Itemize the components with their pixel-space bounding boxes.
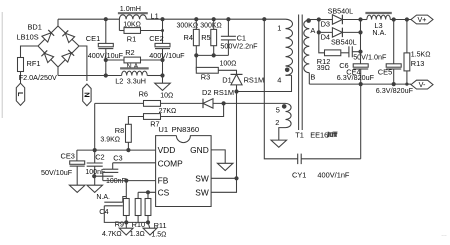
svg-text:VDD: VDD (158, 145, 176, 155)
svg-text:N.A.: N.A. (96, 194, 110, 201)
resistor R8 (100, 124, 131, 150)
capacitor CE4 (337, 64, 375, 84)
svg-text:LB10S: LB10S (17, 33, 39, 42)
resistor R2 (106, 48, 163, 70)
junction CE1 top (104, 17, 108, 21)
junction CE1 bottom (104, 73, 108, 77)
svg-text:PN8360: PN8360 (172, 125, 199, 134)
corner artifact (441, 232, 447, 238)
svg-text:50V/1.0nF: 50V/1.0nF (353, 53, 387, 62)
junction C1 top (226, 17, 230, 21)
capacitor CY1 (292, 154, 361, 180)
ground IC (217, 163, 233, 170)
svg-text:SB540L: SB540L (328, 7, 354, 16)
svg-text:D4: D4 (321, 32, 330, 41)
label T1 (295, 130, 304, 139)
svg-text:L: L (16, 92, 25, 97)
wire Y-cap right leg (360, 84, 362, 159)
svg-text:CE2: CE2 (149, 34, 163, 43)
resistor R5 (201, 19, 216, 55)
wire CS line (138, 191, 156, 193)
junction SW bus (234, 176, 238, 180)
svg-text:39Ω: 39Ω (317, 65, 330, 72)
capacitor C4 (96, 194, 126, 222)
ground aux winding (271, 140, 287, 147)
wire bottom rail (58, 75, 163, 77)
ground C2 (87, 185, 103, 192)
junction R5 top (212, 17, 216, 21)
inductor L1 (118, 4, 159, 21)
pin COMP (158, 158, 184, 168)
label 300K second (200, 23, 222, 30)
svg-text:COMP: COMP (158, 158, 184, 168)
transformer T1 secondary (304, 20, 316, 85)
svg-text:SW: SW (195, 173, 209, 183)
svg-text:C2: C2 (95, 152, 104, 161)
junction D3 out (358, 17, 362, 21)
resistor R3 (196, 55, 236, 81)
resistor R9 (115, 181, 130, 229)
svg-text:L1: L1 (151, 11, 159, 20)
wire Y-cap left leg (264, 19, 297, 159)
svg-text:N.A.: N.A. (372, 28, 386, 37)
wire R3 to D1 (218, 70, 236, 74)
svg-text:10KΩ: 10KΩ (123, 22, 141, 29)
svg-text:4: 4 (277, 76, 281, 85)
bridge diode top-right (62, 30, 74, 42)
svg-text:A: A (310, 26, 315, 35)
svg-text:SB540L: SB540L (331, 38, 357, 47)
svg-text:100Ω: 100Ω (220, 60, 237, 67)
svg-text:1.5Ω: 1.5Ω (151, 231, 166, 238)
svg-text:GND: GND (190, 145, 209, 155)
svg-text:CE1: CE1 (86, 34, 100, 43)
svg-text:5: 5 (276, 106, 280, 115)
node V- terminal (411, 80, 433, 89)
junction CE5 bottom (392, 82, 396, 86)
svg-text:BD1: BD1 (28, 23, 42, 32)
ground sense right (143, 222, 157, 235)
junction CE2-R2 (160, 58, 164, 62)
wire snubber bottom (196, 54, 228, 56)
label 1.3 (130, 231, 145, 238)
diode D4 (319, 20, 361, 47)
junction C2 tap (92, 174, 96, 178)
transformer core (299, 15, 303, 131)
fuse/thermistor RF1 (18, 58, 41, 72)
junction R9 gnd (124, 220, 128, 224)
junction drain node (234, 89, 238, 93)
svg-text:6.3V/820uF: 6.3V/820uF (337, 73, 375, 82)
svg-text:500V/2.2nF: 500V/2.2nF (220, 42, 258, 51)
svg-text:300KΩ: 300KΩ (200, 23, 222, 30)
svg-text:400V/1nF: 400V/1nF (317, 171, 350, 180)
wire top rail to T1 pin1 (264, 18, 285, 20)
svg-text:R3: R3 (201, 73, 210, 82)
svg-text:B: B (310, 72, 315, 81)
ground CE3 (69, 185, 85, 192)
svg-text:300KΩ: 300KΩ (177, 23, 199, 30)
junction R4 top (194, 17, 198, 21)
wire drain to T1 pin4 (237, 75, 292, 91)
wire RF1 to bridge AC1 (21, 46, 39, 58)
resistor R4 (184, 19, 200, 55)
junction Y-cap branch (262, 17, 266, 21)
svg-text:L2: L2 (115, 77, 123, 86)
label EE16 (310, 130, 337, 139)
pin GND (190, 145, 209, 155)
label BD1 (28, 23, 42, 32)
diode D1 (222, 74, 264, 85)
svg-text:D2 RS1M: D2 RS1M (202, 88, 234, 97)
label 300K first (177, 23, 199, 30)
ground primary bottom (155, 83, 174, 99)
junction C6 out (358, 50, 362, 54)
inductor L2 (115, 68, 149, 85)
node N input terminal (83, 84, 92, 106)
svg-text:RF1: RF1 (27, 59, 41, 68)
svg-text:CE5: CE5 (378, 68, 392, 77)
junction R6 riser bottom (93, 148, 97, 152)
svg-text:CE3: CE3 (61, 151, 75, 160)
wire VDD line (77, 150, 156, 161)
junction R13 top (405, 17, 409, 21)
junction CE5 top (392, 17, 396, 21)
bridge diode bottom-left (41, 50, 53, 62)
svg-text:F2.0A/250V: F2.0A/250V (19, 73, 57, 82)
pin VDD (158, 145, 176, 155)
capacitor CE1 (86, 19, 124, 75)
junction CE4 bottom (359, 82, 363, 86)
svg-text:R8: R8 (115, 126, 124, 135)
junction R8 bottom (126, 148, 130, 152)
svg-text:T1: T1 (295, 130, 304, 139)
capacitor C6 (339, 46, 387, 70)
junction D4 out (358, 30, 362, 34)
junction FB-R9 (124, 179, 128, 183)
svg-text:R1: R1 (127, 34, 136, 43)
resistor R6 (95, 90, 203, 107)
node V+ terminal (411, 15, 433, 24)
svg-text:CS: CS (158, 187, 170, 197)
junction CE1-R2 (104, 58, 108, 62)
svg-text:R9: R9 (115, 220, 124, 229)
svg-text:V-: V- (419, 80, 426, 89)
capacitor C1 (220, 19, 258, 55)
capacitor CE5 (376, 20, 414, 96)
junction R4 bottom (194, 53, 198, 57)
label 4.7K (102, 231, 122, 238)
svg-text:4.7KΩ: 4.7KΩ (102, 231, 122, 238)
svg-text:N: N (83, 92, 92, 97)
transformer T1 primary (277, 19, 292, 84)
phase dot secondary (306, 18, 311, 23)
svg-text:27KΩ: 27KΩ (159, 108, 177, 115)
wire N to bridge AC2 (79, 46, 87, 81)
wire bridge+ to top rail (57, 19, 59, 26)
wire VDD feed riser (94, 103, 96, 150)
label LB10S (17, 33, 39, 42)
svg-text:C4: C4 (99, 207, 108, 216)
pin CS (158, 187, 170, 197)
svg-text:2: 2 (275, 118, 279, 127)
pin FB (158, 176, 169, 186)
wire D2 to aux pin5 (213, 102, 286, 104)
left edge artifact (1, 12, 3, 118)
junction R13 bottom (405, 83, 408, 86)
junction CE2-rail (160, 73, 164, 77)
wire C2 tap stub (94, 175, 113, 177)
node L input terminal (16, 83, 25, 105)
wire A node (309, 19, 319, 21)
svg-text:400V/10uF: 400V/10uF (149, 51, 185, 60)
transformer T1 aux winding (275, 103, 291, 140)
wire bridge- to bottom rail (57, 67, 59, 76)
diode D3 (319, 7, 361, 29)
junction CE2 top (160, 17, 164, 21)
wire top rail left (58, 18, 119, 20)
svg-text:R6: R6 (139, 90, 148, 99)
junction R5 bottom (212, 53, 216, 57)
svg-text:SW: SW (195, 187, 209, 197)
svg-text:R2: R2 (125, 48, 134, 57)
junction A node (317, 17, 321, 21)
resistor R1 (119, 19, 164, 43)
junction R7 tap (222, 101, 226, 105)
ground sense left (119, 222, 133, 235)
wire D1 to drain (236, 85, 238, 92)
svg-text:6.3V/820uF: 6.3V/820uF (376, 86, 414, 95)
svg-text:EE16: EE16 (310, 130, 328, 139)
wire FB line (103, 180, 156, 182)
wire SW lower pin (211, 92, 236, 193)
resistor R7 (128, 103, 223, 128)
op-amp U1 PN8360 body (156, 125, 212, 206)
pin SW upper (195, 173, 209, 183)
svg-text:1.5KΩ: 1.5KΩ (411, 51, 431, 58)
svg-text:…: … (441, 232, 447, 238)
svg-text:D3: D3 (321, 19, 330, 28)
wire L to RF1 (20, 72, 22, 84)
label F2.0A/250V (19, 73, 57, 82)
svg-text:1.3Ω: 1.3Ω (130, 231, 145, 238)
capacitor C3 (103, 153, 126, 185)
resistor R10 (132, 192, 146, 229)
svg-text:V+: V+ (418, 15, 427, 24)
svg-text:3.3uH: 3.3uH (127, 77, 146, 86)
resistor R11 (145, 192, 167, 230)
svg-text:R5: R5 (201, 33, 210, 42)
svg-text:100nF: 100nF (106, 178, 126, 185)
wire SW upper pin (211, 177, 236, 179)
inductor L3 (361, 13, 412, 37)
phase dot primary (285, 68, 290, 73)
resistor R13 (404, 20, 430, 85)
svg-text:U1: U1 (158, 125, 168, 134)
svg-text:1: 1 (277, 23, 281, 32)
svg-text:CY1: CY1 (292, 171, 306, 180)
capacitor CE2 (149, 19, 185, 83)
capacitor CE3 (41, 151, 85, 185)
wire V- rail (309, 83, 411, 85)
svg-text:R13: R13 (411, 59, 425, 68)
wire sense ground tie (126, 221, 148, 223)
svg-text:RS1M: RS1M (244, 75, 265, 84)
svg-text:D1: D1 (222, 75, 231, 84)
pin SW lower (195, 187, 209, 197)
svg-text:R4: R4 (184, 33, 193, 42)
label 1.5 (151, 231, 166, 238)
diode D2 (202, 88, 234, 108)
wire cathode bus (360, 20, 362, 64)
svg-text:50V/10uF: 50V/10uF (41, 168, 73, 177)
bridge rectifier BD1 diamond (38, 26, 79, 67)
capacitor C2 (85, 150, 105, 185)
svg-text:10Ω: 10Ω (160, 92, 173, 99)
phase dot aux (282, 104, 287, 109)
svg-text:C3: C3 (113, 153, 122, 162)
wire top rail middle (146, 18, 264, 20)
svg-text:1.0mH: 1.0mH (120, 4, 141, 13)
bridge diode top-left (42, 30, 54, 42)
junction CS-R11 (146, 190, 150, 194)
junction D4 tap (317, 30, 321, 34)
bridge diode bottom-right (62, 50, 74, 62)
junction R11 gnd (146, 220, 150, 224)
svg-text:FB: FB (158, 176, 169, 186)
wire GND pin (211, 150, 225, 163)
wire COMP line (113, 162, 156, 164)
resistor R12 (317, 32, 349, 72)
svg-text:3.9KΩ: 3.9KΩ (100, 136, 120, 143)
